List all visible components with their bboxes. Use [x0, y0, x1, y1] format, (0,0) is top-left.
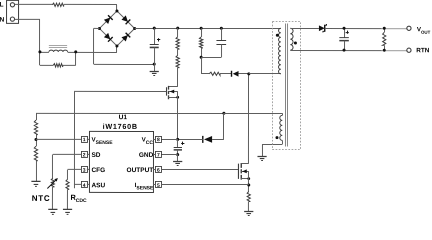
svg-text:GND: GND — [139, 152, 154, 159]
svg-text:SD: SD — [91, 152, 100, 159]
svg-text:N: N — [0, 17, 4, 24]
svg-text:L: L — [0, 1, 3, 8]
svg-text:RTN: RTN — [416, 47, 430, 54]
svg-text:iW1760B: iW1760B — [103, 122, 138, 131]
svg-text:7: 7 — [157, 152, 160, 158]
svg-text:1: 1 — [83, 137, 86, 143]
svg-text:2: 2 — [83, 152, 86, 158]
svg-text:3: 3 — [83, 168, 86, 174]
svg-text:5: 5 — [157, 183, 160, 189]
svg-text:OUTPUT: OUTPUT — [127, 167, 154, 174]
svg-text:ASU: ASU — [91, 182, 105, 189]
svg-text:NTC: NTC — [32, 194, 51, 203]
svg-text:6: 6 — [157, 168, 160, 174]
svg-text:CFG: CFG — [91, 167, 105, 174]
svg-text:U1: U1 — [119, 114, 128, 121]
svg-text:8: 8 — [157, 137, 160, 143]
svg-text:4: 4 — [83, 183, 86, 189]
